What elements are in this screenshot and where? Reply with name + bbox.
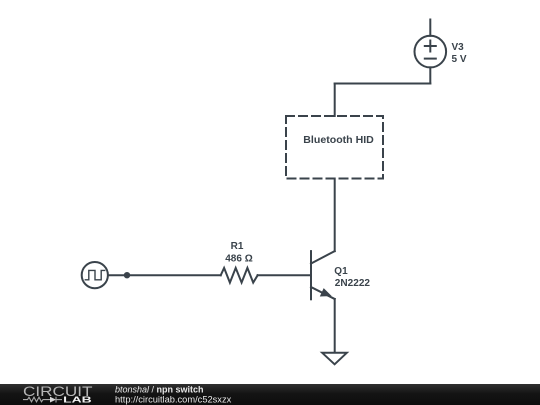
svg-text:R1: R1 [231, 241, 244, 252]
svg-text:V3: V3 [452, 42, 465, 53]
voltage source V3 [415, 20, 447, 84]
wire resistor to base [258, 274, 311, 276]
svg-text:http://circuitlab.com/c52sxzx: http://circuitlab.com/c52sxzx [115, 394, 232, 404]
Bluetooth HID box [286, 116, 383, 179]
wire box bottom to collector [334, 179, 336, 252]
wire emitter to ground [334, 299, 336, 352]
label Q1 2N2222 [334, 266, 370, 289]
label R1 486 ohm [225, 241, 252, 264]
wire box top vertical [334, 84, 336, 117]
svg-text:Bluetooth HID: Bluetooth HID [303, 135, 374, 146]
wire node to resistor [127, 274, 221, 276]
label V3 5 V [452, 42, 467, 65]
svg-text:btonshal / npn switch: btonshal / npn switch [115, 384, 204, 394]
resistor R1 [221, 268, 258, 283]
svg-text:2N2222: 2N2222 [335, 278, 371, 289]
svg-text:Q1: Q1 [334, 266, 348, 277]
svg-text:LAB: LAB [63, 395, 92, 404]
node junction dot [124, 272, 130, 278]
square wave source [82, 262, 127, 288]
wire V3 to box horizontal [335, 83, 431, 85]
svg-text:486 Ω: 486 Ω [225, 253, 252, 264]
CircuitLab logo resistor squiggle and diode [23, 397, 62, 403]
svg-text:5 V: 5 V [452, 54, 467, 65]
transistor Q1 [311, 251, 335, 299]
ground [322, 353, 347, 365]
